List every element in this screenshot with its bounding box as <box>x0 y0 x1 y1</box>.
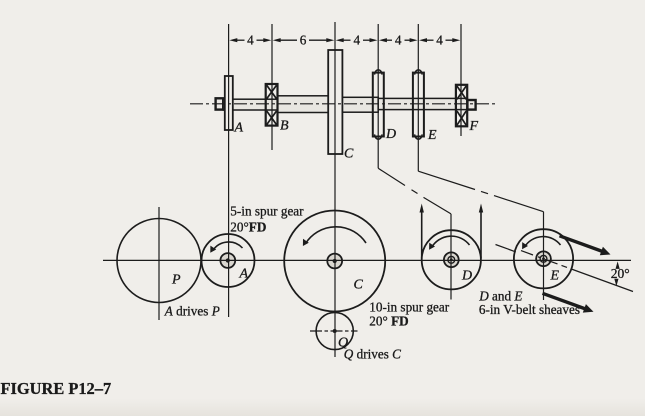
sheave E hub <box>536 251 551 266</box>
vertical line through sheave D <box>450 214 452 300</box>
dimension 4 between D and E <box>379 38 418 42</box>
svg-text:20° FD: 20° FD <box>369 314 408 329</box>
pinion Q circle <box>316 312 353 349</box>
belt centerline through E at 20 degrees <box>496 245 516 252</box>
svg-text:F: F <box>469 119 479 134</box>
svg-text:4: 4 <box>395 33 402 48</box>
belt tension arrow upper (thick) <box>560 236 604 252</box>
svg-text:P: P <box>171 272 181 287</box>
svg-text:E: E <box>550 268 560 283</box>
belt arrow left of D <box>421 211 423 259</box>
rotation arrow on E <box>525 237 561 247</box>
sheave E circle (bottom view) <box>514 229 573 288</box>
gear C circle (bottom view) <box>284 211 385 312</box>
extension line B (vertical through bearing B) <box>271 24 273 150</box>
svg-text:Q drives C: Q drives C <box>344 346 401 361</box>
svg-text:10-in spur gear: 10-in spur gear <box>369 299 449 314</box>
gear C hub dot <box>333 259 337 263</box>
pinion Q horizontal centerline <box>310 330 358 332</box>
gear A hub dot <box>226 258 230 262</box>
dimension 4 between C and D <box>336 38 378 42</box>
main horizontal centerline (bottom view) <box>103 259 631 261</box>
gear A (top view section) <box>225 76 233 130</box>
extension line F (vertical through bearing F) <box>460 24 462 136</box>
svg-text:6: 6 <box>300 33 307 48</box>
gear C (top view section) <box>328 50 342 154</box>
sheave D groove bottom <box>375 134 382 139</box>
svg-text:E: E <box>427 128 437 143</box>
rotation arrow on C <box>306 227 367 244</box>
dimension 4 between E and F <box>419 38 460 42</box>
svg-text:5-in spur gear: 5-in spur gear <box>230 203 304 218</box>
leader from sheave E to belt line (with dash-dot break) <box>418 171 475 189</box>
shaft section B to C <box>277 96 335 113</box>
shaft left end cap <box>216 98 224 109</box>
20 degree angle arrow down <box>614 279 618 287</box>
shaft section cap to B <box>223 99 277 110</box>
sheave D groove top <box>375 70 382 75</box>
dimension 6 between B and C <box>273 38 335 42</box>
bearing B cross bottom <box>267 111 277 125</box>
bearing F outer <box>456 85 467 127</box>
svg-text:B: B <box>280 119 289 134</box>
gear A hub <box>220 253 235 268</box>
svg-text:20°: 20° <box>611 266 630 281</box>
svg-text:6-in V-belt sheaves: 6-in V-belt sheaves <box>479 302 580 317</box>
leader from sheave D to belt arrows (with dash-dot break) <box>378 168 405 185</box>
20 degree angle arrow up <box>616 261 620 269</box>
sheave E (top view section) <box>413 73 424 137</box>
belt tension arrow lower (thick) <box>543 293 587 309</box>
shaft right end cap <box>467 100 475 110</box>
shaft section D to F <box>378 98 467 109</box>
svg-text:D: D <box>461 269 472 284</box>
gear P circle <box>117 219 201 303</box>
sheave D circle (bottom view) <box>422 230 481 289</box>
svg-text:4: 4 <box>354 33 361 48</box>
svg-text:C: C <box>344 147 354 162</box>
svg-text:20°FD: 20°FD <box>230 220 266 235</box>
svg-text:FIGURE P12–7: FIGURE P12–7 <box>1 379 112 398</box>
svg-text:A drives P: A drives P <box>164 304 220 319</box>
svg-text:C: C <box>354 278 364 293</box>
gear P vertical centerline <box>158 207 160 320</box>
svg-text:4: 4 <box>436 33 443 48</box>
shaft centerline (top view, dash-dot) <box>190 103 497 105</box>
pinion Q hub dot <box>333 329 337 333</box>
sheave D (top view section) <box>373 73 384 137</box>
svg-text:A: A <box>234 121 244 136</box>
sheave D hub dot <box>450 258 453 261</box>
bearing F cross top <box>457 86 466 99</box>
extension line D (vertical through sheave D) <box>377 24 379 168</box>
sheave E groove bottom <box>415 134 422 139</box>
extension line E (vertical through sheave E) <box>417 24 419 171</box>
rotation arrow on D <box>432 236 470 247</box>
dimension 4 between A and B <box>229 38 271 42</box>
gear A circle (bottom view) <box>202 234 255 287</box>
bearing B cross top <box>267 85 277 99</box>
sheave E groove top <box>415 70 422 75</box>
bearing B outer <box>266 84 278 126</box>
extension line C (vertical through gear C down to pinion Q) <box>334 22 336 357</box>
vertical line through sheave E <box>543 212 545 300</box>
bearing F cross bottom <box>457 111 466 125</box>
sheave E hub dot <box>542 257 545 260</box>
extension line A (vertical through gear A, top view to bottom view) <box>228 24 230 317</box>
svg-text:4: 4 <box>247 33 254 48</box>
svg-text:A: A <box>239 267 249 282</box>
belt arrow right of D <box>480 211 482 259</box>
rotation arrow on A <box>213 242 243 251</box>
svg-text:D: D <box>385 127 396 142</box>
shaft section C to D <box>335 97 378 112</box>
sheave D hub <box>444 252 459 267</box>
gear C hub <box>327 254 342 269</box>
